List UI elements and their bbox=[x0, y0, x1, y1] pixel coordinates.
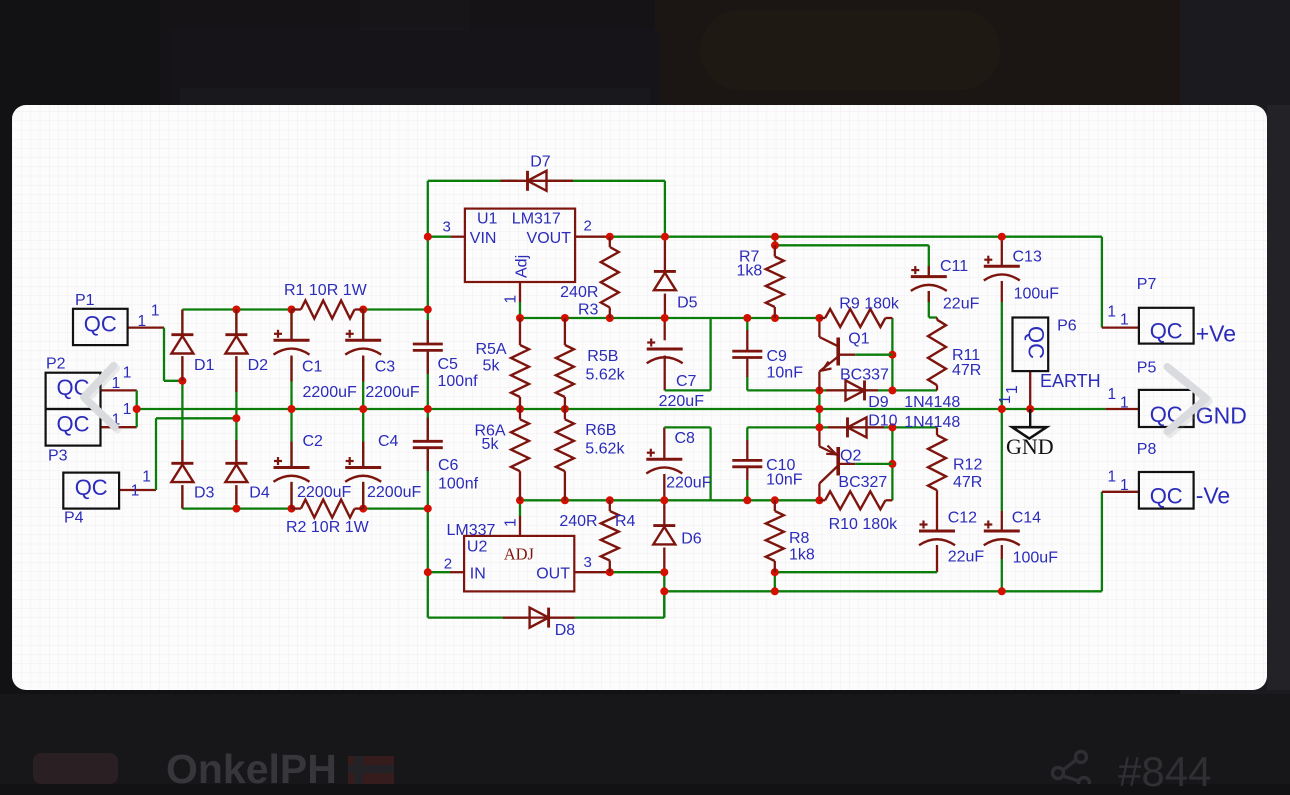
pin 1 labels P2 bbox=[112, 365, 132, 393]
wire D9 line right bbox=[819, 389, 937, 391]
label Q1 value bbox=[840, 367, 889, 384]
net GND label bbox=[1196, 403, 1247, 429]
svg-text:100uF: 100uF bbox=[1013, 550, 1059, 567]
label R12 bbox=[953, 457, 982, 474]
label R6A value bbox=[482, 436, 500, 453]
svg-text:VOUT: VOUT bbox=[527, 230, 572, 247]
svg-text:C7: C7 bbox=[676, 373, 697, 390]
resistor R1 bbox=[292, 301, 364, 319]
label R11 value bbox=[952, 362, 981, 379]
svg-text:1N4148: 1N4148 bbox=[904, 414, 960, 431]
svg-text:R8: R8 bbox=[789, 530, 810, 547]
label C7 bbox=[676, 373, 697, 390]
capacitor C10 bbox=[732, 460, 762, 466]
svg-text:1: 1 bbox=[1004, 385, 1021, 394]
svg-text:1: 1 bbox=[123, 365, 132, 382]
svg-text:240R: 240R bbox=[560, 284, 598, 301]
wire C12 bottom link bbox=[775, 545, 937, 591]
label R3 bbox=[578, 302, 599, 319]
pin 1 labels P6 bbox=[997, 385, 1021, 404]
label C10 bbox=[766, 457, 795, 474]
wire P3 pin bbox=[101, 409, 137, 427]
svg-text:OUT: OUT bbox=[536, 566, 570, 583]
svg-text:+Ve: +Ve bbox=[1196, 321, 1236, 347]
connector P8 bbox=[1137, 441, 1194, 509]
pin 1 labels P4 bbox=[131, 469, 151, 500]
label C1 bbox=[302, 359, 323, 376]
svg-text:D6: D6 bbox=[681, 531, 702, 548]
svg-text:R2 10R 1W: R2 10R 1W bbox=[286, 519, 370, 536]
label C3 value bbox=[365, 384, 419, 401]
label D5 bbox=[677, 295, 698, 312]
svg-text:QC: QC bbox=[75, 475, 108, 500]
svg-text:D8: D8 bbox=[555, 622, 576, 639]
svg-text:1: 1 bbox=[1108, 469, 1117, 486]
pin number 2 of U2 bbox=[444, 556, 452, 573]
label D4 bbox=[249, 485, 270, 502]
capacitor C3 bbox=[345, 330, 381, 355]
svg-text:C9: C9 bbox=[767, 348, 788, 365]
svg-text:2200uF: 2200uF bbox=[297, 484, 351, 501]
label R5A value bbox=[483, 358, 501, 375]
label R12 value bbox=[953, 474, 982, 491]
wire P6 pin bbox=[1029, 371, 1031, 409]
svg-text:LM337: LM337 bbox=[447, 522, 496, 539]
svg-text:R5B: R5B bbox=[587, 348, 618, 365]
label D9 value bbox=[904, 394, 960, 411]
svg-text:R1 10R 1W: R1 10R 1W bbox=[284, 282, 368, 299]
svg-text:C12: C12 bbox=[948, 510, 977, 527]
pin 1 labels P5 bbox=[1108, 386, 1129, 412]
label C6 value bbox=[438, 476, 479, 493]
label R8 bbox=[789, 530, 810, 547]
resistor R10 bbox=[819, 491, 892, 509]
component pin stubs bbox=[182, 266, 928, 509]
svg-text:P4: P4 bbox=[64, 510, 84, 527]
svg-text:1k8: 1k8 bbox=[789, 547, 815, 564]
label R5B value bbox=[586, 367, 626, 384]
svg-text:1: 1 bbox=[1108, 386, 1117, 403]
label C9 bbox=[767, 348, 788, 365]
resistor R8 bbox=[766, 500, 784, 572]
label D8 bbox=[555, 622, 576, 639]
svg-text:2: 2 bbox=[444, 556, 452, 573]
wire C1-C2 column bbox=[290, 310, 292, 509]
wire P1 to D1 node bbox=[128, 328, 183, 381]
svg-text:2200uF: 2200uF bbox=[367, 484, 421, 501]
svg-text:1: 1 bbox=[503, 295, 520, 304]
svg-text:1: 1 bbox=[1120, 312, 1129, 329]
connector P5 bbox=[1137, 359, 1194, 427]
right nav chevron bbox=[1170, 369, 1209, 434]
capacitor C6 bbox=[413, 441, 443, 447]
svg-text:100nf: 100nf bbox=[438, 476, 479, 493]
svg-text:R4: R4 bbox=[615, 513, 636, 530]
svg-text:C8: C8 bbox=[675, 430, 696, 447]
wire bottom rail (unregulated V-) bbox=[182, 507, 427, 509]
svg-text:LM317: LM317 bbox=[512, 211, 561, 228]
capacitor C8 bbox=[646, 449, 682, 474]
wire D1-D3 column bbox=[181, 310, 183, 509]
wire R11 link bbox=[929, 291, 937, 390]
svg-text:D4: D4 bbox=[249, 485, 270, 502]
resistor R5A bbox=[511, 318, 529, 409]
svg-text:Adj: Adj bbox=[514, 255, 531, 278]
svg-text:10nF: 10nF bbox=[766, 472, 803, 489]
svg-text:D2: D2 bbox=[248, 357, 269, 374]
svg-text:BC337: BC337 bbox=[840, 367, 889, 384]
label D10 value bbox=[904, 414, 960, 431]
svg-text:1k8: 1k8 bbox=[737, 263, 763, 280]
svg-text:22uF: 22uF bbox=[948, 549, 985, 566]
pin 1 labels P7 bbox=[1107, 303, 1128, 328]
wire R12-C12 link bbox=[936, 427, 938, 531]
label C3 bbox=[375, 359, 396, 376]
capacitor C1 bbox=[274, 330, 310, 355]
label C11 value bbox=[943, 296, 980, 313]
wire R9 right drop bbox=[891, 318, 893, 390]
wire D6 column bbox=[663, 500, 665, 617]
svg-text:C3: C3 bbox=[375, 359, 396, 376]
svg-text:5.62k: 5.62k bbox=[586, 367, 626, 384]
label D9 bbox=[868, 394, 889, 411]
wire P2 pin bbox=[101, 390, 137, 409]
resistor R12 bbox=[928, 435, 946, 490]
svg-text:-Ve: -Ve bbox=[1196, 483, 1231, 509]
wire R7 branch bbox=[775, 237, 929, 277]
capacitor C13 bbox=[984, 256, 1020, 281]
svg-text:1: 1 bbox=[142, 469, 151, 486]
svg-text:QC: QC bbox=[57, 412, 90, 437]
svg-text:P8: P8 bbox=[1137, 441, 1157, 458]
svg-text:P6: P6 bbox=[1057, 318, 1077, 335]
svg-text:100nf: 100nf bbox=[438, 373, 479, 390]
svg-text:U1: U1 bbox=[477, 211, 498, 228]
connector P6 bbox=[1013, 318, 1077, 372]
svg-text:BC327: BC327 bbox=[838, 474, 887, 491]
svg-text:5.62k: 5.62k bbox=[585, 441, 625, 458]
connector P4 bbox=[63, 473, 119, 527]
svg-text:R12: R12 bbox=[953, 457, 982, 474]
svg-text:2200uF: 2200uF bbox=[303, 384, 357, 401]
connector P7 bbox=[1137, 276, 1194, 344]
svg-text:D7: D7 bbox=[530, 154, 551, 171]
pin number 3 of U1 bbox=[443, 219, 451, 236]
diode D6 bbox=[653, 526, 675, 545]
diode D1 bbox=[171, 335, 193, 354]
svg-text:P1: P1 bbox=[75, 292, 95, 309]
svg-text:R9 180k: R9 180k bbox=[839, 296, 900, 313]
connector P2 bbox=[46, 356, 101, 410]
resistor R3 bbox=[601, 237, 619, 318]
label C5 bbox=[438, 356, 459, 373]
svg-text:47R: 47R bbox=[952, 362, 981, 379]
transistor Q1 bbox=[819, 337, 892, 390]
wire top rail (unregulated V+) bbox=[182, 308, 427, 310]
wire C10 column bbox=[747, 427, 819, 500]
svg-text:QC: QC bbox=[1024, 326, 1049, 359]
svg-text:P5: P5 bbox=[1137, 359, 1157, 376]
svg-text:C4: C4 bbox=[378, 433, 399, 450]
wire C14 column bbox=[1001, 409, 1003, 591]
diode D2 bbox=[225, 335, 247, 354]
label R2 bbox=[286, 519, 370, 536]
pin 1 labels P3 bbox=[112, 401, 132, 429]
svg-text:QC: QC bbox=[1150, 484, 1183, 509]
wire C5-C6 input column bbox=[427, 181, 429, 618]
label C2 value bbox=[297, 484, 351, 501]
svg-text:1: 1 bbox=[997, 395, 1014, 404]
label C1 value bbox=[303, 384, 357, 401]
svg-text:22uF: 22uF bbox=[943, 296, 980, 313]
diode D8 bbox=[503, 608, 575, 628]
svg-text:1N4148: 1N4148 bbox=[904, 394, 960, 411]
svg-text:220uF: 220uF bbox=[666, 474, 712, 491]
pin number 2 of U1 bbox=[584, 218, 592, 235]
svg-text:1: 1 bbox=[1107, 303, 1116, 320]
wire C13 column bbox=[1001, 237, 1003, 409]
label C12 bbox=[948, 510, 977, 527]
wire D5 column bbox=[664, 237, 666, 318]
label C14 bbox=[1012, 510, 1041, 527]
wire R10 right rise bbox=[891, 427, 893, 500]
label C10 value bbox=[766, 472, 803, 489]
label Q1 bbox=[848, 331, 869, 348]
svg-text:D10: D10 bbox=[868, 413, 897, 430]
connector P1 bbox=[73, 292, 128, 345]
label D2 bbox=[248, 357, 269, 374]
svg-text:1: 1 bbox=[112, 375, 121, 392]
label R6B value bbox=[585, 441, 625, 458]
svg-text:EARTH: EARTH bbox=[1040, 371, 1101, 391]
capacitor C7 bbox=[647, 339, 683, 364]
capacitor C9 bbox=[732, 351, 762, 357]
diode D7 bbox=[501, 171, 573, 191]
net -Ve label bbox=[1196, 483, 1231, 509]
svg-text:C6: C6 bbox=[438, 457, 459, 474]
transistor Q2 bbox=[819, 446, 892, 484]
wire C8 column+bracket bbox=[664, 427, 710, 500]
pin 1 labels P8 bbox=[1108, 469, 1129, 495]
svg-text:C13: C13 bbox=[1013, 249, 1042, 266]
label C12 value bbox=[948, 549, 985, 566]
label D3 bbox=[194, 485, 215, 502]
pin number 1 of U2 bbox=[503, 518, 520, 527]
wire C3-C4 column bbox=[362, 310, 364, 509]
svg-text:QC: QC bbox=[84, 311, 117, 336]
svg-text:3: 3 bbox=[584, 554, 592, 571]
svg-text:47R: 47R bbox=[953, 474, 982, 491]
label C13 bbox=[1013, 249, 1042, 266]
label R11 bbox=[952, 347, 980, 364]
capacitor C12 bbox=[919, 521, 955, 546]
svg-text:1: 1 bbox=[1120, 395, 1129, 412]
resistor R6A bbox=[511, 409, 529, 500]
wire IN pin bbox=[428, 571, 464, 573]
diode D3 bbox=[171, 463, 193, 482]
svg-text:240R: 240R bbox=[559, 513, 597, 530]
wire P4 to D2 node bbox=[119, 418, 236, 490]
left nav chevron bbox=[86, 368, 117, 429]
svg-text:2: 2 bbox=[584, 218, 592, 235]
pin number 1 of U1 bbox=[503, 295, 520, 304]
label D10 bbox=[868, 413, 897, 430]
svg-text:U2: U2 bbox=[467, 539, 488, 556]
svg-text:R5A: R5A bbox=[475, 341, 506, 358]
svg-text:C1: C1 bbox=[302, 359, 323, 376]
svg-text:5k: 5k bbox=[482, 436, 500, 453]
svg-text:D5: D5 bbox=[677, 295, 698, 312]
capacitor C5 bbox=[413, 344, 443, 350]
label R1 bbox=[284, 282, 368, 299]
svg-text:R10 180k: R10 180k bbox=[829, 516, 898, 533]
pin 1 labels P1 bbox=[138, 303, 160, 331]
label Q2 value bbox=[838, 474, 887, 491]
wire VOUT +Ve line bbox=[575, 237, 1139, 328]
capacitor C4 bbox=[345, 457, 381, 482]
ground GND bbox=[1006, 409, 1054, 459]
label R4 value bbox=[559, 513, 597, 530]
svg-text:ADJ: ADJ bbox=[504, 545, 535, 564]
resistor R9 bbox=[819, 309, 892, 327]
resistor R11 bbox=[928, 320, 946, 386]
label C5 value bbox=[438, 373, 479, 390]
label R5B bbox=[587, 348, 618, 365]
svg-text:C2: C2 bbox=[303, 433, 324, 450]
svg-text:IN: IN bbox=[470, 566, 486, 583]
svg-text:D3: D3 bbox=[194, 485, 215, 502]
label C8 value bbox=[666, 474, 712, 491]
diode D5 bbox=[654, 271, 676, 290]
label D6 bbox=[681, 531, 702, 548]
svg-text:P7: P7 bbox=[1137, 276, 1157, 293]
svg-text:D9: D9 bbox=[868, 394, 889, 411]
svg-text:3: 3 bbox=[443, 219, 451, 236]
label D7 bbox=[530, 154, 551, 171]
svg-text:R3: R3 bbox=[578, 302, 599, 319]
svg-text:10nF: 10nF bbox=[767, 365, 804, 382]
label D1 bbox=[194, 357, 215, 374]
node EARTH label bbox=[1040, 371, 1101, 391]
label R9 bbox=[839, 296, 900, 313]
svg-text:P3: P3 bbox=[48, 448, 68, 465]
svg-text:D1: D1 bbox=[194, 357, 215, 374]
svg-text:1: 1 bbox=[1120, 477, 1129, 494]
svg-text:Q1: Q1 bbox=[848, 331, 869, 348]
label Q2 bbox=[840, 448, 861, 465]
net +Ve label bbox=[1196, 321, 1236, 347]
wire C9 column bbox=[747, 318, 819, 390]
capacitor C11 bbox=[911, 266, 947, 291]
op-amp U1 LM317 bbox=[465, 209, 575, 282]
svg-text:2200uF: 2200uF bbox=[365, 384, 419, 401]
label R3 value bbox=[560, 284, 598, 301]
wire P5 pin bbox=[1105, 408, 1139, 410]
wire D2-D4 column bbox=[235, 310, 237, 509]
resistor R2 bbox=[292, 500, 364, 518]
resistor R7 bbox=[766, 245, 784, 318]
resistor R5B bbox=[556, 318, 574, 409]
svg-text:P2: P2 bbox=[46, 356, 66, 373]
label C9 value bbox=[767, 365, 804, 382]
svg-text:VIN: VIN bbox=[470, 230, 497, 247]
label C4 bbox=[378, 433, 399, 450]
capacitor C14 bbox=[984, 521, 1020, 546]
wire ADJ1 line bbox=[520, 282, 819, 318]
svg-text:100uF: 100uF bbox=[1014, 286, 1060, 303]
label R8 value bbox=[789, 547, 815, 564]
label R6B bbox=[585, 422, 616, 439]
label R6A bbox=[474, 423, 505, 440]
wire VIN pin bbox=[428, 236, 465, 238]
pin number 3 of U2 bbox=[584, 554, 592, 571]
resistor R4 bbox=[601, 500, 619, 572]
diode D4 bbox=[225, 463, 247, 482]
label C14 value bbox=[1013, 550, 1059, 567]
wire ADJ2 line bbox=[520, 500, 819, 536]
white schematic card bbox=[12, 105, 1267, 690]
svg-text:1: 1 bbox=[503, 518, 520, 527]
svg-text:220uF: 220uF bbox=[659, 393, 705, 410]
svg-text:1: 1 bbox=[123, 401, 132, 418]
label R5A bbox=[475, 341, 506, 358]
wire D8 bottom line bbox=[428, 591, 665, 617]
wire D10 line right bbox=[819, 426, 937, 428]
svg-text:C14: C14 bbox=[1012, 510, 1041, 527]
label R10 bbox=[829, 516, 898, 533]
label C6 bbox=[438, 457, 459, 474]
label R4 bbox=[615, 513, 636, 530]
capacitor C2 bbox=[274, 457, 310, 482]
label C2 bbox=[303, 433, 324, 450]
diode D9 bbox=[826, 380, 878, 400]
label R7 bbox=[739, 249, 760, 266]
svg-text:1: 1 bbox=[151, 303, 160, 320]
wire OUT line bbox=[574, 571, 664, 573]
wire Q column bbox=[818, 318, 820, 500]
label C11 bbox=[940, 258, 968, 275]
svg-text:C5: C5 bbox=[438, 356, 459, 373]
svg-text:1: 1 bbox=[138, 313, 147, 330]
wire D7 top line bbox=[428, 181, 665, 237]
svg-text:Q2: Q2 bbox=[840, 448, 861, 465]
resistor R6B bbox=[556, 409, 574, 500]
svg-text:C11: C11 bbox=[940, 258, 968, 275]
label C4 value bbox=[367, 484, 421, 501]
svg-text:QC: QC bbox=[1150, 319, 1183, 344]
wire C7 column+bracket bbox=[665, 318, 711, 390]
diode D10 bbox=[828, 417, 884, 437]
connector P3 bbox=[46, 409, 101, 465]
svg-text:5k: 5k bbox=[483, 358, 501, 375]
wire mid 0V rail bbox=[137, 408, 1106, 410]
svg-text:R6B: R6B bbox=[585, 422, 616, 439]
label R7 value bbox=[737, 263, 763, 280]
label C13 value bbox=[1014, 286, 1060, 303]
svg-text:GND: GND bbox=[1006, 434, 1054, 459]
label C7 value bbox=[659, 393, 705, 410]
op-amp U2 LM337 bbox=[447, 522, 575, 591]
label C8 bbox=[675, 430, 696, 447]
wire -Ve line bbox=[664, 492, 1139, 592]
svg-text:1: 1 bbox=[131, 483, 140, 500]
